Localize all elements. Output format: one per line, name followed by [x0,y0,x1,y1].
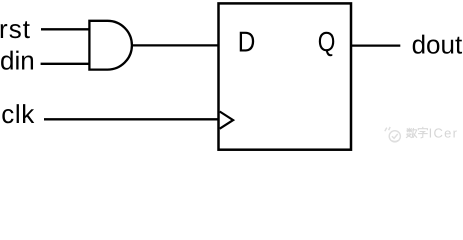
AND gate U1 [89,21,132,70]
wire din to AND gate input [41,63,90,65]
svg-text:dout: dout [412,29,463,59]
svg-text:D: D [238,27,256,59]
svg-text:clk: clk [1,99,35,129]
wire Q output to dout [351,44,400,46]
wire clk to flip-flop clock pin [44,118,219,120]
watermark glyph 字 (approximate) [418,127,428,138]
watermark glyph 数 (approximate) [406,128,417,138]
wire rst to AND gate input [41,28,90,30]
svg-text:rst: rst [0,14,31,44]
D flip-flop U2 body [219,3,352,149]
wire AND gate output to D input of flip-flop [132,44,219,46]
watermark logo circle [385,127,401,142]
svg-text:din: din [0,46,35,76]
clock input triangle of flip-flop [220,112,233,129]
svg-text:Q: Q [318,26,336,57]
